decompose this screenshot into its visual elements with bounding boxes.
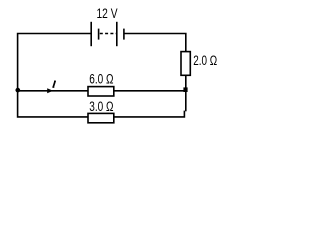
svg-text:12 V: 12 V	[97, 6, 118, 21]
svg-text:2.0 Ω: 2.0 Ω	[193, 53, 217, 68]
svg-text:3.0 Ω: 3.0 Ω	[89, 99, 113, 114]
svg-text:6.0 Ω: 6.0 Ω	[89, 72, 113, 87]
